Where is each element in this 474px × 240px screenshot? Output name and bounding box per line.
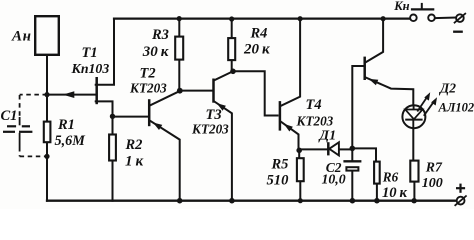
svg-text:5,6М: 5,6М [55, 133, 87, 149]
svg-text:R6: R6 [382, 169, 399, 184]
svg-text:10,0: 10,0 [322, 172, 346, 187]
svg-text:510: 510 [267, 172, 290, 188]
svg-text:Д1: Д1 [318, 128, 337, 143]
svg-text:Т4: Т4 [306, 97, 322, 113]
svg-text:R7: R7 [425, 160, 443, 175]
svg-text:КТ203: КТ203 [296, 114, 334, 129]
svg-text:R1: R1 [57, 117, 75, 133]
svg-text:R5: R5 [271, 156, 289, 172]
svg-text:R4: R4 [250, 25, 268, 41]
svg-text:Ан: Ан [11, 28, 32, 44]
svg-text:Д2: Д2 [438, 80, 456, 95]
svg-text:Т1: Т1 [82, 45, 98, 61]
svg-text:Кп103: Кп103 [71, 61, 110, 76]
svg-text:АЛ102: АЛ102 [438, 100, 474, 114]
svg-text:30 к: 30 к [142, 44, 169, 60]
svg-text:Кн: Кн [393, 0, 409, 13]
svg-text:20 к: 20 к [243, 41, 270, 57]
svg-text:R3: R3 [151, 27, 169, 43]
svg-text:100: 100 [422, 176, 443, 191]
svg-text:R2: R2 [125, 137, 143, 153]
svg-text:Т2: Т2 [140, 66, 156, 82]
svg-text:1 к: 1 к [125, 154, 144, 170]
svg-text:С1: С1 [1, 108, 18, 124]
svg-text:КТ203: КТ203 [129, 81, 167, 96]
svg-text:10 к: 10 к [382, 185, 408, 201]
svg-text:КТ203: КТ203 [191, 122, 229, 137]
